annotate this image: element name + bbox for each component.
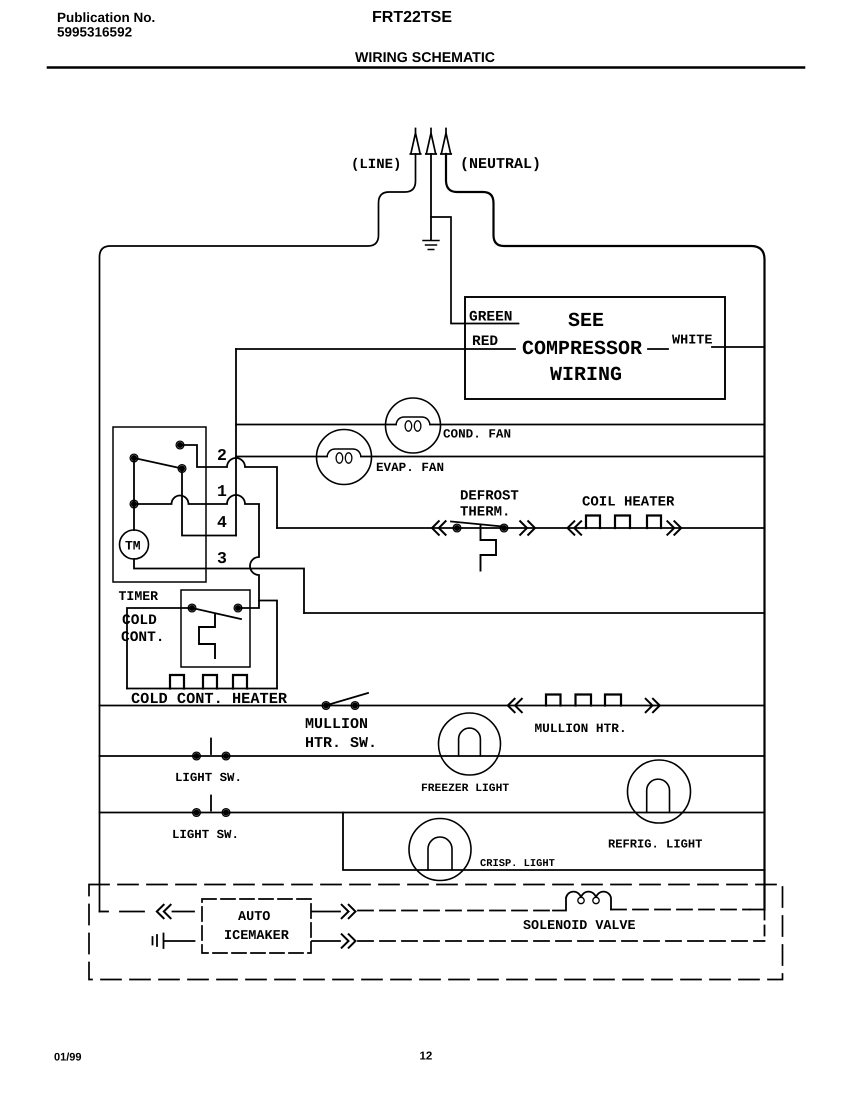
svg-text:SEE: SEE <box>568 310 604 333</box>
svg-text:TIMER: TIMER <box>119 589 159 604</box>
svg-text:COIL HEATER: COIL HEATER <box>582 495 675 511</box>
svg-text:AUTO: AUTO <box>238 910 270 925</box>
svg-text:3: 3 <box>217 549 227 568</box>
svg-text:ICEMAKER: ICEMAKER <box>224 929 290 944</box>
svg-text:MULLION HTR.: MULLION HTR. <box>535 721 627 736</box>
svg-text:(NEUTRAL): (NEUTRAL) <box>460 156 541 173</box>
svg-text:MULLION: MULLION <box>305 716 368 733</box>
svg-text:COND. FAN: COND. FAN <box>443 428 511 442</box>
svg-text:FRT22TSE: FRT22TSE <box>372 9 452 26</box>
svg-text:COLD CONT. HEATER: COLD CONT. HEATER <box>131 690 288 708</box>
svg-text:LIGHT SW.: LIGHT SW. <box>172 828 239 842</box>
svg-text:CONT.: CONT. <box>121 630 165 646</box>
svg-text:SOLENOID VALVE: SOLENOID VALVE <box>523 919 636 934</box>
svg-text:5995316592: 5995316592 <box>57 25 132 40</box>
svg-text:THERM.: THERM. <box>460 505 510 521</box>
svg-text:LIGHT SW.: LIGHT SW. <box>175 771 242 785</box>
svg-text:1: 1 <box>217 482 227 501</box>
svg-text:WIRING: WIRING <box>550 364 622 387</box>
svg-text:TM: TM <box>125 539 141 554</box>
svg-text:WHITE: WHITE <box>672 334 713 349</box>
svg-text:01/99: 01/99 <box>54 1052 82 1064</box>
svg-text:(LINE): (LINE) <box>351 157 401 173</box>
svg-text:12: 12 <box>420 1051 433 1063</box>
svg-text:HTR. SW.: HTR. SW. <box>305 735 377 752</box>
svg-text:COMPRESSOR: COMPRESSOR <box>522 338 642 361</box>
svg-text:GREEN: GREEN <box>469 310 513 326</box>
svg-text:COLD: COLD <box>122 613 157 629</box>
svg-text:FREEZER LIGHT: FREEZER LIGHT <box>421 783 509 795</box>
svg-text:EVAP. FAN: EVAP. FAN <box>376 461 444 475</box>
svg-text:WIRING SCHEMATIC: WIRING SCHEMATIC <box>355 50 495 66</box>
svg-text:Publication No.: Publication No. <box>57 10 155 25</box>
svg-text:RED: RED <box>472 334 498 350</box>
svg-text:REFRIG. LIGHT: REFRIG. LIGHT <box>608 838 702 852</box>
svg-text:4: 4 <box>217 513 227 532</box>
svg-text:2: 2 <box>217 446 227 465</box>
svg-text:DEFROST: DEFROST <box>460 489 519 505</box>
svg-text:CRISP. LIGHT: CRISP. LIGHT <box>480 858 555 870</box>
